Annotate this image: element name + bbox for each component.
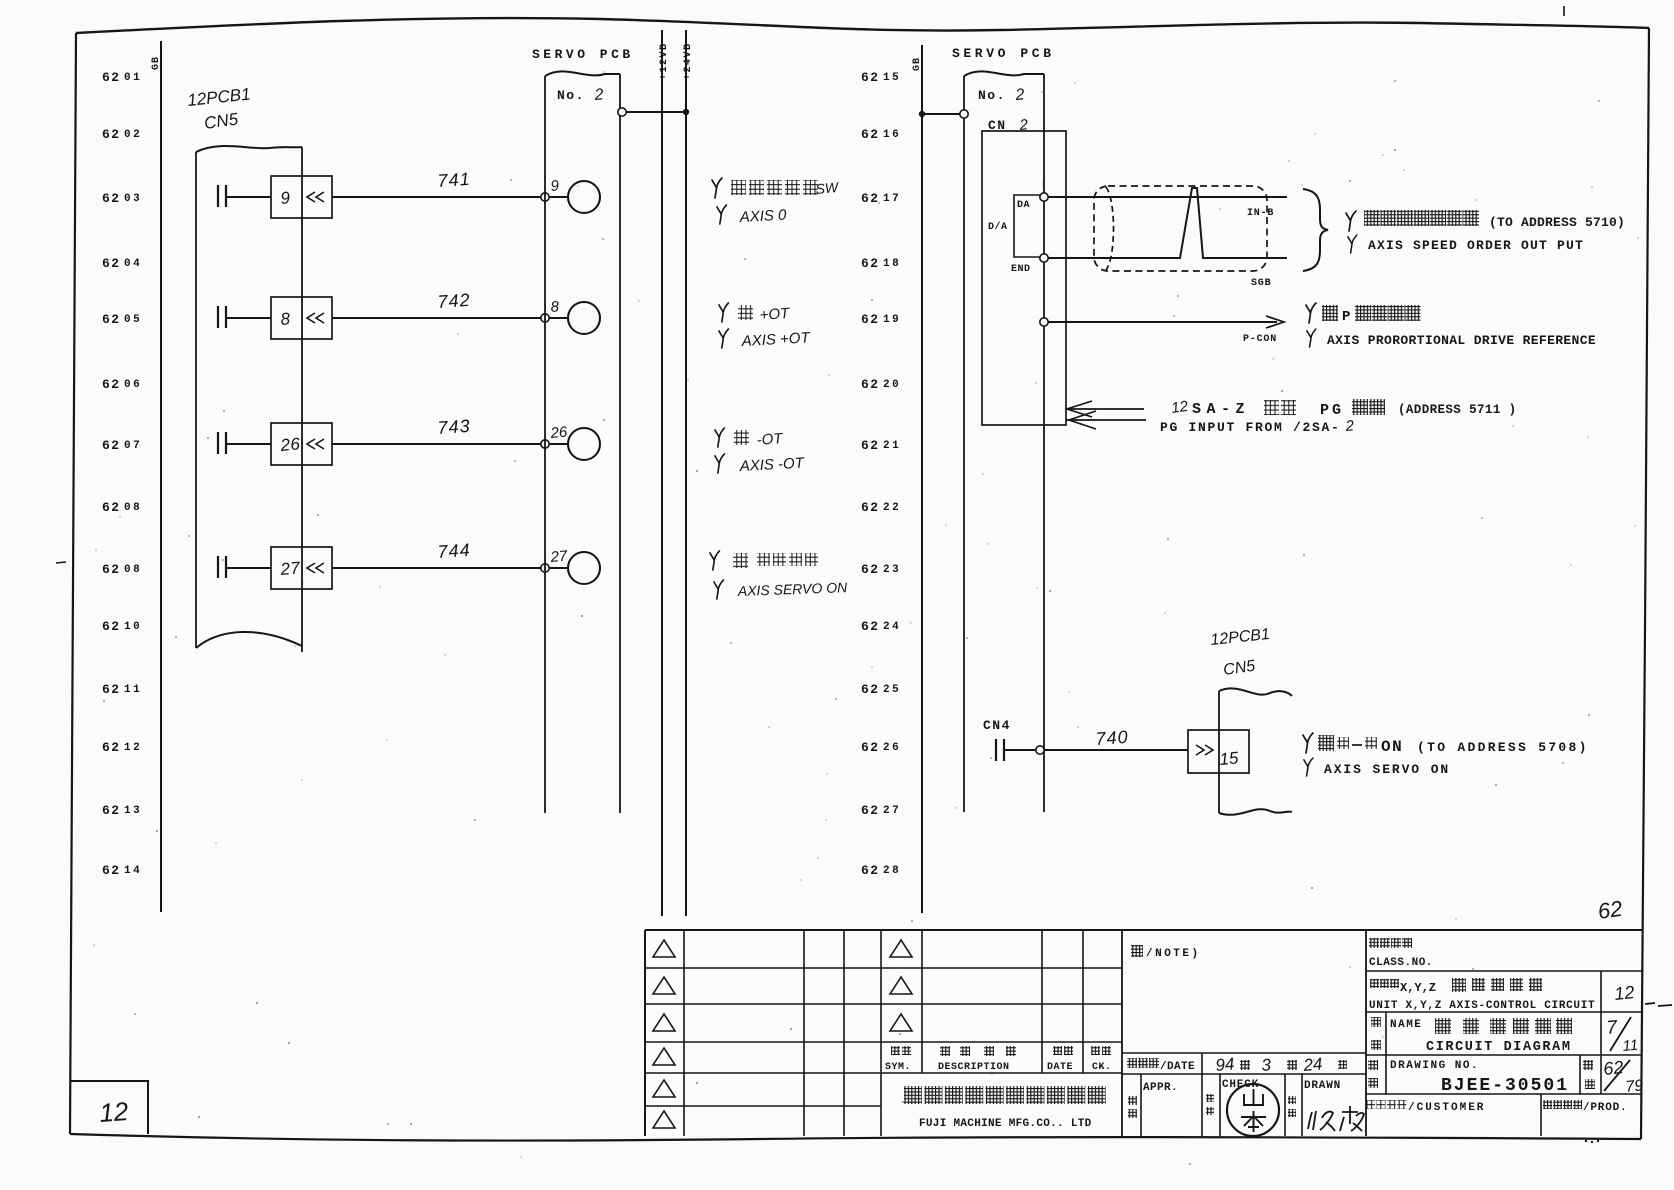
svg-text:12: 12 bbox=[1170, 398, 1190, 417]
svg-text:744: 744 bbox=[437, 540, 471, 562]
pin box 8 on 12PCB1 CN5 bbox=[271, 297, 332, 339]
svg-text:04: 04 bbox=[124, 258, 142, 270]
svg-text:62: 62 bbox=[1602, 1057, 1624, 1079]
revision triangle A6 bbox=[653, 1111, 675, 1128]
svg-text:62: 62 bbox=[102, 803, 121, 818]
svg-text:No.: No. bbox=[557, 88, 585, 103]
svg-text:/CUSTOMER: /CUSTOMER bbox=[1408, 1102, 1485, 1114]
svg-text:SW: SW bbox=[815, 179, 841, 197]
revision triangle B1 bbox=[890, 940, 912, 957]
shielded cable (dashed) bbox=[1094, 186, 1267, 271]
tick mark left border bbox=[56, 562, 66, 563]
svg-text:-OT: -OT bbox=[756, 430, 785, 449]
svg-text:AXIS 0: AXIS 0 bbox=[738, 207, 787, 227]
svg-text:CK.: CK. bbox=[1092, 1062, 1112, 1073]
svg-text:+24VB: +24VB bbox=[683, 42, 694, 80]
svg-text:FUJI MACHINE MFG.CO.. LTD: FUJI MACHINE MFG.CO.. LTD bbox=[919, 1118, 1092, 1130]
svg-text:DESCRIPTION: DESCRIPTION bbox=[938, 1062, 1010, 1073]
chevron arrows into pin 26 bbox=[307, 439, 324, 449]
pin DA bbox=[1040, 193, 1048, 201]
terminal circle pin 27 bbox=[568, 552, 600, 584]
svg-text:62: 62 bbox=[861, 500, 880, 515]
pin contact symbol row 4 bbox=[217, 556, 219, 578]
wire contact to box 27 bbox=[226, 567, 271, 569]
svg-text:+12VB: +12VB bbox=[659, 42, 670, 80]
border frame (decorative) bbox=[76, 18, 1649, 33]
label Y AXIS PROPORTIONAL DRIVE REFERENCE bbox=[1307, 329, 1316, 347]
svg-text:26: 26 bbox=[549, 424, 569, 443]
svg-text:11: 11 bbox=[1622, 1037, 1639, 1055]
revision table B grid bbox=[921, 930, 923, 1073]
svg-text:SGB: SGB bbox=[1251, 278, 1271, 289]
pin contact symbol row 3 bbox=[217, 432, 219, 454]
chevron arrows into pin 8 bbox=[307, 313, 324, 323]
svg-text:62: 62 bbox=[102, 377, 121, 392]
svg-text:62: 62 bbox=[102, 312, 121, 327]
svg-text:62: 62 bbox=[861, 312, 880, 327]
svg-text:62: 62 bbox=[861, 619, 880, 634]
svg-text:17: 17 bbox=[883, 193, 901, 205]
svg-text:08: 08 bbox=[124, 502, 142, 514]
svg-text:62: 62 bbox=[1596, 896, 1624, 924]
pin box 9 on 12PCB1 CN5 bbox=[271, 176, 332, 218]
svg-text:62: 62 bbox=[861, 682, 880, 697]
svg-text:18: 18 bbox=[883, 258, 901, 270]
svg-text:62: 62 bbox=[102, 619, 121, 634]
svg-text:CLASS.NO.: CLASS.NO. bbox=[1369, 957, 1433, 969]
date row bbox=[1127, 1058, 1137, 1068]
svg-text:/PROD.: /PROD. bbox=[1583, 1102, 1627, 1114]
revision header CK bbox=[1091, 1046, 1100, 1055]
wire SGB from END with pulse bbox=[1048, 188, 1287, 258]
svg-text:27: 27 bbox=[279, 558, 302, 579]
bus +24VB bbox=[685, 30, 687, 916]
svg-text:62: 62 bbox=[102, 438, 121, 453]
approval labels bbox=[1128, 1096, 1137, 1105]
svg-text:CIRCUIT DIAGRAM: CIRCUIT DIAGRAM bbox=[1426, 1040, 1572, 1055]
svg-text:62: 62 bbox=[861, 803, 880, 818]
svg-text:X,Y,Z: X,Y,Z bbox=[1400, 981, 1436, 995]
svg-text:15: 15 bbox=[1219, 748, 1240, 769]
wire 742 to SERVO PCB bbox=[332, 317, 541, 319]
pin box 15 on 12PCB1 CN5 bbox=[1188, 730, 1249, 773]
svg-text:742: 742 bbox=[437, 290, 471, 312]
svg-text:+OT: +OT bbox=[759, 305, 792, 324]
chevron arrows into pin 27 bbox=[307, 563, 324, 573]
svg-text:79: 79 bbox=[1625, 1077, 1645, 1096]
wire 743 to SERVO PCB bbox=[332, 443, 541, 445]
svg-text:62: 62 bbox=[861, 863, 880, 878]
wire 740 bbox=[1004, 749, 1036, 751]
bottom right dots bbox=[1585, 1140, 1587, 1142]
svg-text:62: 62 bbox=[861, 256, 880, 271]
note Y axis servo lock bbox=[710, 551, 720, 570]
bus +12VB bbox=[661, 30, 663, 916]
note Y axis -OT bbox=[715, 428, 725, 447]
svg-text:20: 20 bbox=[883, 379, 901, 391]
svg-text:24: 24 bbox=[883, 621, 901, 633]
svg-text:743: 743 bbox=[437, 416, 471, 438]
svg-text:62: 62 bbox=[861, 377, 880, 392]
note Y axis +OT bbox=[719, 303, 729, 322]
note Y axis zero set SW bbox=[712, 178, 722, 198]
svg-text:62: 62 bbox=[861, 127, 880, 142]
label Y AXIS SERVO ON bbox=[1304, 758, 1313, 776]
svg-text:DA: DA bbox=[1017, 200, 1030, 211]
svg-text:741: 741 bbox=[437, 169, 471, 191]
svg-text:9: 9 bbox=[280, 188, 292, 208]
brace speed order output bbox=[1303, 189, 1328, 271]
junction on SERVO PCB right edge bbox=[618, 108, 626, 116]
svg-text:25: 25 bbox=[883, 684, 901, 696]
svg-text:62: 62 bbox=[102, 682, 121, 697]
terminal circle pin 26 bbox=[568, 428, 600, 460]
junction node 27 on SERVO PCB No.2 bbox=[541, 564, 549, 572]
pin END bbox=[1040, 254, 1048, 262]
revision triangle A4 bbox=[653, 1048, 675, 1065]
connector box CN2 bbox=[982, 131, 1066, 425]
svg-text:ON: ON bbox=[1381, 738, 1403, 756]
wire rail to SERVO PCB (right) bbox=[919, 111, 925, 117]
company name FUJI MACHINE MFG bbox=[904, 1086, 922, 1104]
svg-text:21: 21 bbox=[883, 440, 901, 452]
svg-text:APPR.: APPR. bbox=[1143, 1082, 1178, 1094]
svg-text:08: 08 bbox=[124, 564, 142, 576]
svg-text:62: 62 bbox=[102, 500, 121, 515]
D/A converter block bbox=[1014, 195, 1044, 257]
revision table A grid bbox=[683, 930, 685, 1136]
label Y AXIS SPEED ORDER OUT PUT bbox=[1348, 235, 1357, 253]
svg-text:06: 06 bbox=[124, 379, 142, 391]
name cell bbox=[1385, 1012, 1387, 1055]
svg-text:19: 19 bbox=[883, 314, 901, 326]
svg-text:DATE: DATE bbox=[1047, 1062, 1073, 1073]
revision triangle B2 bbox=[890, 977, 912, 994]
label Y axis speed order output (kanji) bbox=[1346, 211, 1356, 231]
svg-text:27: 27 bbox=[883, 805, 901, 817]
arrow PG input lower bbox=[1066, 419, 1146, 421]
svg-text:AXIS SPEED ORDER OUT PUT: AXIS SPEED ORDER OUT PUT bbox=[1368, 238, 1584, 253]
label Y axis P operation (kanji) bbox=[1306, 303, 1316, 323]
svg-text:03: 03 bbox=[124, 193, 142, 205]
svg-text:62: 62 bbox=[102, 191, 121, 206]
svg-text:27: 27 bbox=[549, 548, 569, 567]
svg-text:02: 02 bbox=[124, 129, 142, 141]
svg-text:GB: GB bbox=[151, 56, 162, 70]
sheet fraction 7/11 bbox=[1600, 1012, 1602, 1055]
svg-text:24: 24 bbox=[1302, 1054, 1324, 1075]
wire contact to box 8 bbox=[226, 317, 271, 319]
pin box 26 on 12PCB1 CN5 bbox=[271, 423, 332, 465]
svg-text:15: 15 bbox=[883, 72, 901, 84]
svg-text:NAME: NAME bbox=[1390, 1019, 1422, 1031]
svg-text:IN-B: IN-B bbox=[1247, 208, 1274, 219]
scan speckles (decorative) bbox=[577, 185, 578, 186]
left line-number rail GB bbox=[160, 41, 162, 912]
customer cell bbox=[1366, 1100, 1375, 1109]
svg-text:62: 62 bbox=[861, 740, 880, 755]
page number box 12 bbox=[70, 1081, 148, 1134]
svg-text:AXIS PRORORTIONAL DRIVE REFERE: AXIS PRORORTIONAL DRIVE REFERENCE bbox=[1327, 333, 1596, 348]
svg-text:12: 12 bbox=[1613, 982, 1635, 1004]
title block frame bbox=[645, 929, 1642, 931]
wire contact to box 26 bbox=[226, 443, 271, 445]
svg-text:AXIS SERVO ON: AXIS SERVO ON bbox=[1324, 762, 1450, 777]
revision header SYM bbox=[891, 1046, 900, 1055]
chevron arrows into pin 9 bbox=[307, 192, 324, 202]
svg-text:07: 07 bbox=[124, 440, 142, 452]
svg-text:BJEE-30501: BJEE-30501 bbox=[1441, 1076, 1569, 1096]
revision header DESCRIPTION bbox=[940, 1046, 950, 1056]
svg-text:DRAWING NO.: DRAWING NO. bbox=[1390, 1060, 1479, 1072]
wire IN-B from DA bbox=[1048, 196, 1287, 198]
terminal circle pin 9 bbox=[568, 181, 600, 213]
junction node 8 on SERVO PCB No.2 bbox=[541, 314, 549, 322]
tick mark top right bbox=[1563, 6, 1565, 16]
approval row grid bbox=[1140, 1074, 1142, 1136]
revision triangle A5 bbox=[653, 1080, 675, 1097]
svg-text:28: 28 bbox=[883, 865, 901, 877]
svg-text:No.: No. bbox=[978, 88, 1006, 103]
svg-text:UNIT X,Y,Z AXIS-CONTROL CIRCUI: UNIT X,Y,Z AXIS-CONTROL CIRCUIT bbox=[1369, 1000, 1595, 1012]
pin contact symbol CN4 bbox=[995, 739, 997, 761]
svg-text:23: 23 bbox=[883, 564, 901, 576]
pin contact symbol row 2 bbox=[217, 306, 219, 328]
svg-text:62: 62 bbox=[102, 127, 121, 142]
stamp circle Yamamoto bbox=[1227, 1084, 1279, 1136]
svg-text:13: 13 bbox=[124, 805, 142, 817]
svg-text:22: 22 bbox=[883, 502, 901, 514]
svg-text:8: 8 bbox=[280, 309, 292, 329]
revision triangle A2 bbox=[653, 977, 675, 994]
svg-text:PG INPUT FROM /2SA-: PG INPUT FROM /2SA- bbox=[1160, 420, 1341, 435]
svg-text:(TO ADDRESS 5710): (TO ADDRESS 5710) bbox=[1489, 215, 1625, 230]
junction node 9 on SERVO PCB No.2 bbox=[541, 193, 549, 201]
svg-text:SERVO PCB: SERVO PCB bbox=[952, 46, 1055, 61]
svg-text:62: 62 bbox=[102, 863, 121, 878]
svg-text:26: 26 bbox=[883, 742, 901, 754]
svg-text:2: 2 bbox=[1014, 86, 1025, 104]
svg-text:AXIS -OT: AXIS -OT bbox=[738, 455, 806, 475]
svg-text:GB: GB bbox=[912, 57, 923, 71]
svg-text:62: 62 bbox=[861, 562, 880, 577]
unit cell kanji bbox=[1370, 979, 1379, 988]
svg-text:10: 10 bbox=[124, 621, 142, 633]
svg-text:/DATE: /DATE bbox=[1160, 1061, 1195, 1073]
svg-text:62: 62 bbox=[861, 70, 880, 85]
wire P-CON with arrow bbox=[1048, 321, 1277, 323]
wire to +24VB bbox=[626, 111, 686, 113]
revision triangle B3 bbox=[890, 1014, 912, 1031]
page fraction 62/79 bbox=[1579, 1055, 1581, 1094]
svg-text:14: 14 bbox=[124, 865, 142, 877]
junction node 26 on SERVO PCB No.2 bbox=[541, 440, 549, 448]
pin box 27 on 12PCB1 CN5 bbox=[271, 547, 332, 589]
svg-text:/NOTE): /NOTE) bbox=[1146, 948, 1201, 960]
wire 741 to SERVO PCB bbox=[332, 196, 541, 198]
svg-text:12: 12 bbox=[98, 1096, 129, 1128]
svg-text:DRAWN: DRAWN bbox=[1304, 1080, 1341, 1092]
svg-text:11: 11 bbox=[124, 684, 142, 696]
right line-number rail GB bbox=[921, 45, 923, 913]
arrow PG input upper bbox=[1066, 408, 1144, 410]
svg-text:SYM.: SYM. bbox=[885, 1062, 911, 1073]
svg-text:(ADDRESS 5711 ): (ADDRESS 5711 ) bbox=[1398, 403, 1517, 417]
svg-text:SERVO PCB: SERVO PCB bbox=[532, 47, 634, 62]
wire 744 to SERVO PCB bbox=[332, 567, 541, 569]
unit number cell 12 bbox=[1600, 971, 1602, 1012]
terminal circle pin 8 bbox=[568, 302, 600, 334]
svg-text:05: 05 bbox=[124, 314, 142, 326]
revision header DATE bbox=[1053, 1046, 1062, 1055]
svg-text:END: END bbox=[1011, 264, 1031, 275]
svg-text:94: 94 bbox=[1215, 1054, 1236, 1075]
svg-text:(TO ADDRESS 5708): (TO ADDRESS 5708) bbox=[1417, 740, 1589, 755]
svg-text:PG: PG bbox=[1320, 402, 1344, 419]
svg-text:26: 26 bbox=[279, 434, 302, 455]
svg-text:CN4: CN4 bbox=[983, 718, 1011, 733]
svg-text:SA-Z: SA-Z bbox=[1192, 401, 1250, 418]
drawing no cell bbox=[1385, 1055, 1387, 1094]
class no cell bbox=[1369, 938, 1379, 948]
svg-text:P-CON: P-CON bbox=[1243, 334, 1277, 345]
svg-text:62: 62 bbox=[102, 70, 121, 85]
note cell bbox=[1131, 945, 1143, 957]
svg-text:62: 62 bbox=[861, 191, 880, 206]
revision triangle A1 bbox=[653, 940, 675, 957]
svg-text:62: 62 bbox=[102, 740, 121, 755]
pin contact symbol row 1 bbox=[217, 185, 219, 207]
svg-text:62: 62 bbox=[861, 438, 880, 453]
signature Esaka bbox=[1308, 1111, 1335, 1131]
svg-text:12: 12 bbox=[124, 742, 142, 754]
wire contact to box 9 bbox=[226, 196, 271, 198]
svg-text:740: 740 bbox=[1095, 727, 1129, 749]
svg-text:01: 01 bbox=[124, 72, 142, 84]
revision triangle A3 bbox=[653, 1014, 675, 1031]
right column dividers bbox=[1365, 930, 1367, 1136]
prod cell bbox=[1543, 1100, 1552, 1109]
svg-text:62: 62 bbox=[102, 562, 121, 577]
svg-text:2: 2 bbox=[593, 86, 604, 104]
svg-text:P: P bbox=[1342, 309, 1350, 325]
svg-text:16: 16 bbox=[883, 129, 901, 141]
label Y axis servo ON (kanji) bbox=[1303, 733, 1313, 753]
svg-text:D/A: D/A bbox=[988, 221, 1008, 233]
pin P-CON bbox=[1040, 318, 1048, 326]
